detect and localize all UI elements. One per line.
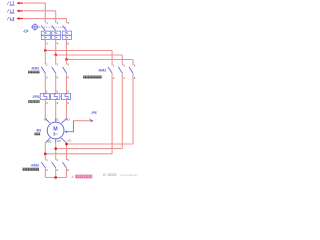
svg-text:U2: U2 — [57, 139, 61, 143]
wire FR1 element 2 to motor — [55, 100, 57, 119]
contactor KM3 pole 2 contact 3/4 — [52, 158, 59, 172]
junction node phase 1 — [44, 49, 47, 52]
wire phase 2 to KM1 pole — [55, 55, 57, 65]
contactor KM3 pole 1 contact 1/2 — [41, 158, 48, 172]
wire motor lead U2 stub — [55, 139, 57, 143]
svg-text:V1: V1 — [55, 117, 59, 121]
thermal relay FR1 element 1 (1/2) — [40, 89, 49, 105]
svg-text:W1: W1 — [66, 118, 71, 122]
svg-text:-PE: -PE — [91, 111, 98, 115]
svg-text:-KM3: -KM3 — [30, 163, 39, 167]
breaker Q1 pole 2 terminals 3/4 — [52, 21, 61, 46]
thermal relay FR1 element 3 (5/6) — [61, 89, 70, 105]
svg-text:3~: 3~ — [53, 131, 58, 136]
wire motor lead V2 stub — [61, 138, 67, 143]
wire phase 3 to KM1 pole — [66, 60, 68, 65]
wire motor lead U1 stub — [45, 119, 50, 124]
wire breaker pole 3 to junction — [66, 39, 68, 59]
FR1 element link line — [41, 96, 71, 98]
wire PE horizontal run — [73, 120, 90, 122]
PE arrow — [91, 119, 94, 122]
node L2 supply terminal — [7, 8, 23, 13]
wire KM2 pole 3 to winding end — [67, 73, 134, 144]
KM1 caption 主触点组 — [28, 70, 40, 74]
contactor KM2 pole 2 contact 3/4 — [118, 63, 125, 80]
wire winding end V2 down to star group — [66, 143, 68, 160]
wire star point bar — [45, 177, 66, 179]
KM3 caption 星形触点组 — [22, 167, 40, 171]
svg-text:housedentip: housedentip — [121, 173, 138, 177]
wire KM1 pole 3 to FR1 — [66, 73, 68, 94]
wire branch phase 1 to delta contactor — [45, 51, 112, 66]
wire motor lead V1 stub — [55, 119, 57, 123]
junction node winding end V2 — [65, 143, 68, 146]
contactor KM2 pole 3 contact 5/6 — [129, 63, 136, 80]
svg-text:U1: U1 — [44, 118, 48, 122]
svg-text:W2: W2 — [47, 139, 52, 143]
wire L3 feeder to breaker pole 3 — [24, 19, 67, 23]
watermark cjk part — [108, 173, 111, 176]
wire KM1 pole 1 to FR1 — [44, 73, 46, 94]
wire L1 feeder to breaker pole 1 — [24, 3, 46, 23]
junction node winding end W2 — [44, 152, 47, 155]
breaker Q1 pole 3 terminals 5/6 — [63, 21, 72, 46]
M1 caption 电机 — [34, 132, 41, 135]
wire branch phase 3 to delta contactor — [67, 60, 134, 66]
contactor KM2 pole 1 contact 1/2 — [108, 63, 115, 80]
breaker Q1 linkage dashed — [39, 26, 66, 28]
wire branch phase 2 to delta contactor — [56, 55, 123, 65]
svg-text:-KM1: -KM1 — [31, 67, 40, 71]
protective earth PE wire — [64, 121, 73, 133]
wire motor lead W2 stub — [45, 138, 50, 143]
junction node phase 3 — [65, 58, 68, 61]
wire KM2 pole 2 to winding end — [56, 73, 123, 149]
node L1 supply terminal — [7, 1, 23, 6]
svg-text:L2: L2 — [10, 8, 16, 13]
breaker Q1 operator circle — [31, 23, 40, 30]
wire KM3 pole 3 to star point — [66, 168, 68, 178]
wire winding end W2 down to star group — [44, 143, 46, 160]
wire winding end U2 down to star group — [55, 143, 57, 160]
breaker Q1 pole 1 terminals 1/2 — [41, 21, 50, 46]
junction node winding end U2 — [54, 147, 57, 150]
wire FR1 element 1 to motor — [44, 100, 46, 119]
wire motor lead W1 stub — [62, 119, 67, 124]
wire KM1 pole 2 to FR1 — [55, 73, 57, 94]
motor M1 circle — [47, 122, 64, 139]
node L3 supply terminal — [7, 16, 23, 21]
KM2 caption 三角形触点组 — [83, 75, 103, 79]
wire KM3 pole 2 to star point — [55, 168, 57, 178]
svg-text:-FR1: -FR1 — [32, 95, 40, 99]
contactor KM3 pole 3 contact 5/6 — [63, 158, 70, 172]
junction node star point — [54, 176, 57, 179]
svg-text:L3: L3 — [10, 16, 16, 21]
FR1 caption 热继电器 — [28, 100, 40, 104]
contactor KM1 pole 1 contact 1/2 — [41, 62, 48, 79]
wire KM2 pole 1 to winding end — [45, 73, 112, 154]
svg-text:-Q1: -Q1 — [23, 29, 29, 33]
contactor KM1 pole 2 contact 3/4 — [52, 62, 59, 79]
wire L2 feeder to breaker pole 2 — [24, 11, 56, 23]
wire KM3 pole 1 to star point — [44, 168, 46, 178]
svg-text:-KM2: -KM2 — [98, 69, 107, 73]
wire FR1 element 3 to motor — [66, 100, 68, 119]
svg-text:L1: L1 — [10, 1, 16, 6]
wire phase 1 to KM1 pole — [44, 51, 46, 65]
svg-text:#: # — [72, 175, 74, 179]
caption grey watermark — [103, 174, 106, 176]
wire breaker pole 2 to junction — [55, 39, 57, 55]
thermal relay FR1 element 2 (3/4) — [51, 89, 60, 105]
wire breaker pole 1 to junction — [44, 39, 46, 50]
contactor KM1 pole 3 contact 5/6 — [63, 62, 70, 79]
svg-text:V2: V2 — [68, 139, 72, 143]
junction node phase 2 — [54, 54, 57, 57]
svg-text:-M1: -M1 — [35, 128, 41, 132]
